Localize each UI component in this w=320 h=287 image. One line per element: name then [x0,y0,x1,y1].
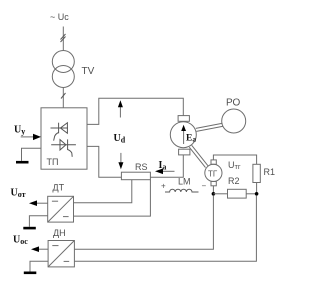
wire shunt to motor (bottom rail) [150,155,183,177]
Uot output arrow [34,202,48,204]
break mark on secondary wire [61,93,66,99]
thyristor VS1 (upper, pointing left) [51,123,69,141]
wire converter output bottom to shunt rail [87,146,121,177]
wire RS right tap to DT [74,180,151,216]
svg-text:Uтг: Uтг [228,160,241,171]
ground (DT) [23,227,36,230]
wire junction to R2 [213,193,227,195]
wire converter left to ground [22,148,42,161]
node Ud label [114,133,126,145]
motor top brush [178,116,189,122]
svg-text:RS: RS [135,162,148,172]
svg-text:Ud: Ud [114,133,126,145]
wire DN input 1 from TG junction [74,196,213,250]
shaft motor to working body PO [196,123,223,128]
motor M armature [170,122,196,148]
node Uot label [11,188,26,200]
svg-text:Ea: Ea [186,133,196,143]
Uoc output arrow [36,248,48,250]
node Uoc label [13,235,28,247]
Uy input arrow [21,136,34,138]
svg-text:LM: LM [178,177,191,187]
wire R1 bottom to junction [256,183,258,194]
svg-text:−: − [202,182,207,191]
current sensor DT [53,183,65,193]
svg-text:R2: R2 [228,176,240,186]
svg-text:ТГ: ТГ [208,170,218,179]
Ea emf arrow [183,128,185,144]
shaft motor to tachogenerator TG [192,145,208,165]
svg-text:РО: РО [226,98,240,109]
svg-text:ДТ: ДТ [53,183,65,193]
shunt resistor RS [121,172,150,180]
node Utg label [228,160,241,171]
working body PO [222,109,246,133]
junction at TG minus [212,192,216,196]
wire converter output top to motor [87,98,183,124]
wire DN to ground [30,261,48,271]
wire DT to ground [29,216,47,227]
break mark on supply wire [61,34,66,42]
svg-text:Uот: Uот [11,188,26,200]
motor bottom brush [179,149,190,155]
Ia current arrow [159,160,167,172]
wire transformer to converter [62,88,64,108]
svg-text:~ Uc: ~ Uc [50,12,69,22]
svg-text:+: + [161,182,166,191]
node Ea label [186,133,196,143]
svg-text:R1: R1 [264,167,276,177]
ground (DN) [24,272,37,275]
resistor R1 [253,164,260,182]
wire RS left tap to DT [74,180,132,203]
wire DN input 2 from R1 junction [74,196,256,262]
wire TG minus to junction [212,186,214,194]
voltage sensor DN [53,228,66,238]
node Uy label [14,125,25,137]
node Uc label [50,12,69,22]
svg-text:TV: TV [82,66,95,77]
thyristor VS2 (lower, pointing right) [51,139,76,156]
wire from Uc to transformer [62,27,64,51]
svg-text:Uос: Uос [13,235,28,247]
wire R2 to R1 junction [246,193,256,195]
thyristor converter TP box [41,108,87,169]
tachogenerator TG bottom brush [211,181,216,185]
resistor R2 [228,189,247,198]
svg-text:ТП: ТП [47,157,59,167]
tachogenerator TG [205,164,222,181]
Ud voltage arrows [119,107,121,118]
tachogenerator TG top brush [211,160,216,164]
svg-text:Uy: Uy [14,125,25,137]
junction at R1 bottom [255,192,259,196]
transformer TV [52,51,74,73]
svg-text:ДН: ДН [53,228,66,238]
wire TG plus to R1 [213,155,256,164]
field winding LM [161,182,166,191]
ground (converter input) [16,161,29,164]
